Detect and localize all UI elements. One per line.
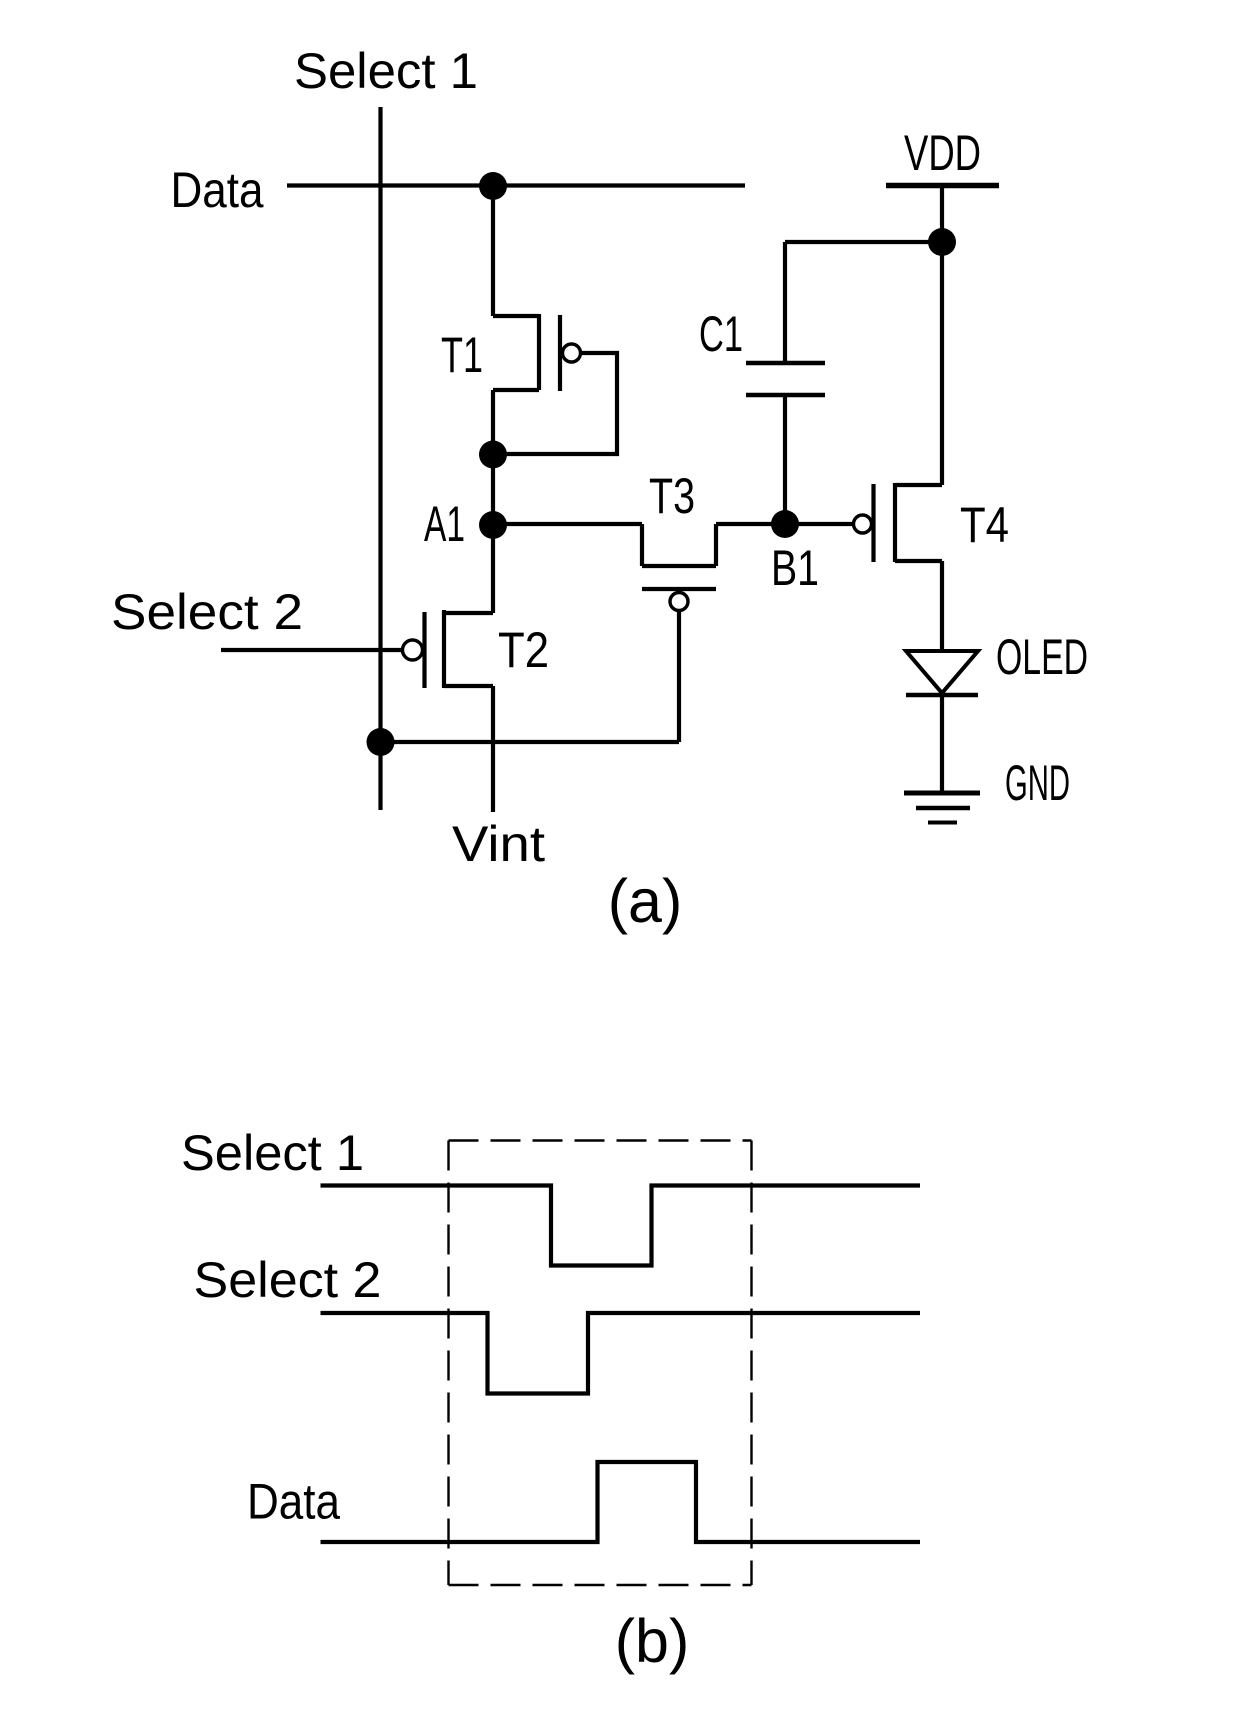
ground symbol: [904, 793, 980, 823]
wire T1 gate feedback loop: [493, 353, 617, 454]
power VDD symbol: [886, 183, 999, 189]
wire OLED to ground: [940, 695, 944, 793]
T2 gate bubble: [403, 640, 423, 660]
diode OLED: [906, 651, 978, 695]
wire Select 2: [221, 648, 403, 652]
svg-text:A1: A1: [424, 496, 465, 552]
wire B1 to T4 gate: [785, 522, 853, 526]
svg-text:T1: T1: [441, 327, 483, 383]
wire Select 1 vertical bus: [378, 107, 382, 810]
transistor T4 (PMOS, gate at left): [874, 483, 943, 651]
wire Data horizontal: [287, 183, 745, 187]
svg-text:Select 2: Select 2: [194, 1252, 382, 1308]
svg-text:Select 2: Select 2: [111, 584, 303, 640]
wire Select1 bus to T3 gate: [381, 740, 680, 744]
svg-text:T3: T3: [649, 468, 695, 524]
svg-text:Vint: Vint: [452, 816, 545, 872]
svg-text:Data: Data: [171, 162, 264, 218]
svg-text:Select 1: Select 1: [294, 43, 478, 99]
svg-text:T2: T2: [498, 622, 549, 678]
svg-text:Select 1: Select 1: [181, 1125, 364, 1181]
wire VDD down to T4: [940, 186, 944, 486]
node A1 junction dot: [479, 511, 507, 539]
wire T1 node to A1: [491, 454, 495, 525]
T1 gate bubble: [563, 344, 581, 362]
waveform Data: [321, 1462, 921, 1542]
svg-text:(a): (a): [608, 867, 683, 935]
transistor T3 (PMOS, gate below): [642, 524, 785, 589]
svg-text:B1: B1: [771, 540, 819, 596]
wire A1 to T3: [493, 522, 642, 526]
svg-text:(b): (b): [615, 1607, 690, 1675]
wire VDD node to C1 top: [785, 240, 942, 244]
junction dot T1 source/gate node: [479, 441, 507, 469]
junction dot Data/T1: [479, 172, 507, 200]
transistor T2 (PMOS, gate at left): [425, 525, 494, 812]
svg-text:T4: T4: [960, 497, 1009, 553]
junction dot VDD node: [928, 228, 956, 256]
T4 gate bubble: [854, 515, 872, 533]
dashed frame of timing window: [449, 1141, 752, 1586]
svg-text:C1: C1: [699, 306, 743, 362]
waveform Select 2: [321, 1313, 921, 1394]
svg-text:Data: Data: [247, 1474, 340, 1530]
svg-text:VDD: VDD: [904, 125, 981, 181]
svg-text:GND: GND: [1005, 755, 1070, 811]
waveform Select 1: [321, 1186, 921, 1266]
node B1 junction dot: [771, 510, 799, 538]
svg-text:OLED: OLED: [996, 629, 1088, 685]
junction dot on Select 1 bus: [367, 728, 395, 756]
transistor T1 (PMOS, gate at right): [493, 314, 560, 454]
wire T3 gate down to Select1 row: [677, 611, 681, 743]
capacitor C1: [746, 242, 825, 524]
T3 gate bubble: [670, 593, 688, 611]
wire Data dot to T1 drain: [491, 186, 495, 316]
